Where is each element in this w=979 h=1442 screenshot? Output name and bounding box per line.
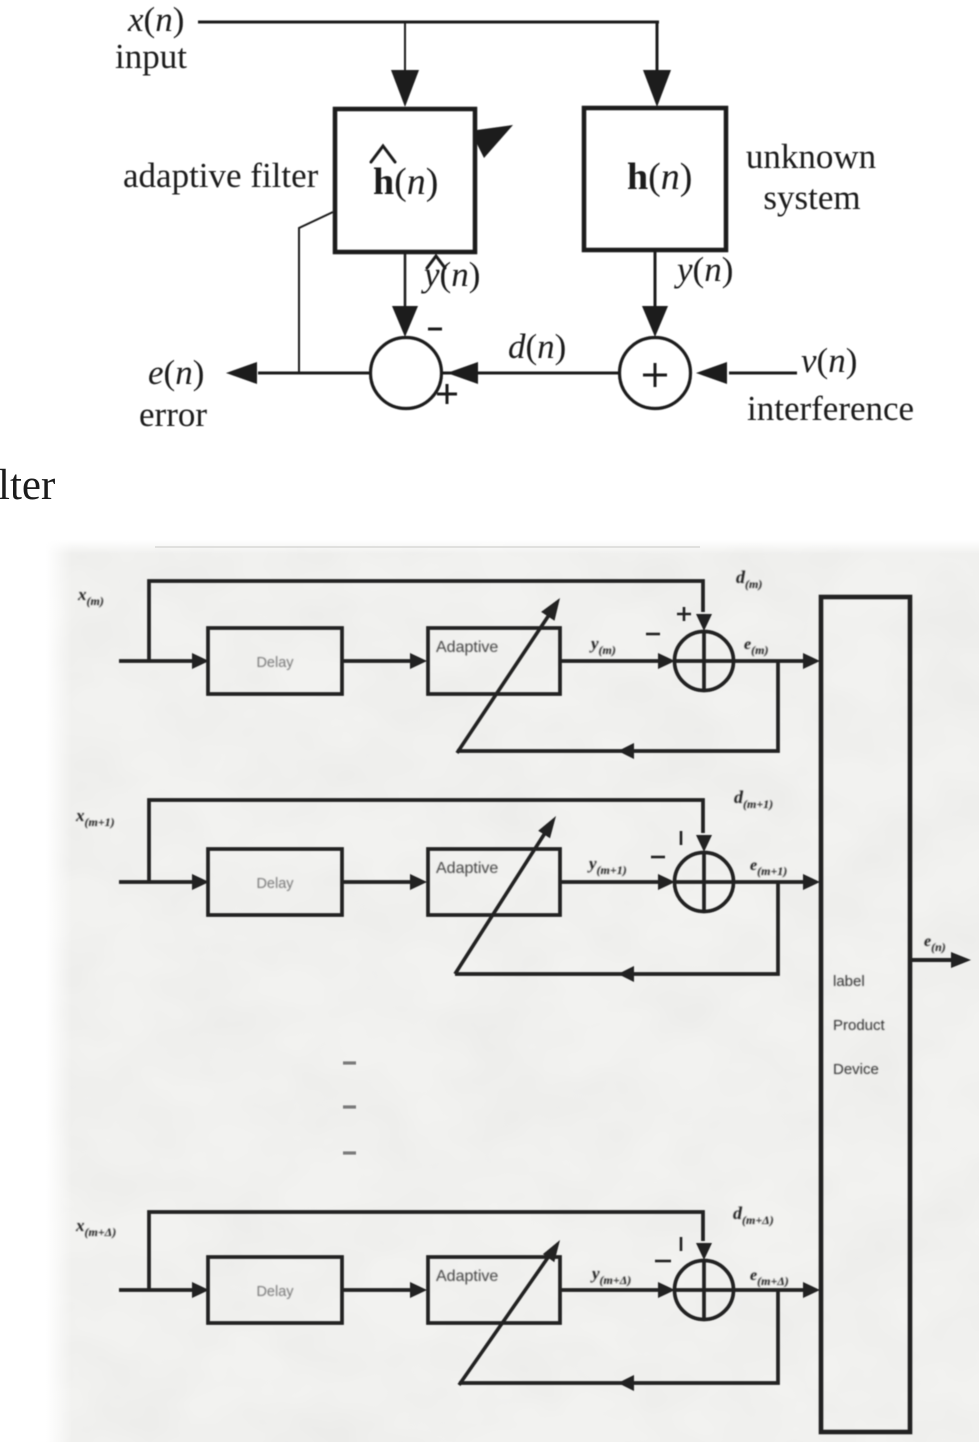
- svg-text:input: input: [115, 37, 187, 76]
- svg-text:h(n): h(n): [373, 161, 438, 203]
- svg-text:Adaptive: Adaptive: [436, 860, 498, 877]
- svg-text:Adaptive: Adaptive: [436, 1268, 498, 1285]
- svg-text:Delay: Delay: [256, 655, 294, 671]
- svg-text:label: label: [833, 973, 865, 990]
- svg-text:Delay: Delay: [256, 1284, 294, 1300]
- svg-text:y(n): y(n): [674, 250, 733, 289]
- svg-text:e(n): e(n): [148, 353, 204, 392]
- svg-text:d(n): d(n): [508, 327, 566, 366]
- svg-text:h(n): h(n): [627, 156, 692, 198]
- svg-text:adaptive filter: adaptive filter: [123, 156, 319, 195]
- svg-text:Delay: Delay: [256, 876, 294, 892]
- svg-text:Adaptive: Adaptive: [436, 639, 498, 656]
- svg-text:unknown: unknown: [746, 137, 876, 176]
- svg-text:Device: Device: [833, 1061, 879, 1078]
- svg-text:y(n): y(n): [421, 255, 480, 294]
- svg-text:system: system: [763, 178, 860, 217]
- svg-text:Product: Product: [833, 1017, 886, 1034]
- svg-text:v(n): v(n): [801, 341, 857, 380]
- svg-text:x(n): x(n): [127, 0, 184, 39]
- svg-text:interference: interference: [747, 389, 914, 428]
- svg-text:error: error: [139, 395, 207, 434]
